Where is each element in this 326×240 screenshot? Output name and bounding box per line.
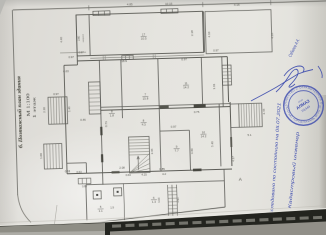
svg-text:5.1: 5.1: [248, 133, 252, 137]
svg-text:1.9: 1.9: [110, 205, 114, 209]
svg-text:3.60: 3.60: [190, 148, 194, 154]
svg-text:0.63: 0.63: [63, 69, 69, 73]
svg-text:2.30: 2.30: [42, 107, 46, 113]
svg-text:2.46: 2.46: [262, 108, 266, 114]
svg-text:10.15: 10.15: [165, 2, 173, 6]
svg-text:18.9: 18.9: [121, 59, 127, 63]
svg-text:0.97: 0.97: [213, 49, 219, 53]
svg-text:14.2: 14.2: [201, 134, 207, 138]
svg-text:4.40: 4.40: [59, 37, 63, 43]
svg-text:0.97: 0.97: [171, 124, 177, 128]
svg-text:4.16: 4.16: [234, 3, 240, 7]
svg-text:0.46: 0.46: [80, 118, 86, 122]
svg-text:1.06: 1.06: [157, 197, 161, 203]
svg-text:4.16: 4.16: [270, 33, 274, 39]
svg-text:А: А: [239, 177, 242, 182]
svg-text:0.97: 0.97: [53, 92, 59, 96]
svg-text:0.97: 0.97: [68, 55, 74, 59]
svg-text:Кадастровый инженер: Кадастровый инженер: [287, 131, 300, 209]
svg-text:1.91: 1.91: [176, 197, 180, 203]
svg-text:ОБЩЕСТВО С ОГРАНИЧЕННОЙ ОТВЕТС: ОБЩЕСТВО С ОГРАНИЧЕННОЙ ОТВЕТСТВЕН: [0, 0, 324, 106]
svg-text:4.25: 4.25: [141, 172, 147, 176]
svg-text:0.85: 0.85: [159, 167, 165, 171]
svg-text:0.97: 0.97: [78, 50, 84, 54]
svg-text:1.3: 1.3: [152, 200, 157, 204]
svg-text:3.01: 3.01: [212, 83, 216, 89]
svg-text:2.08: 2.08: [119, 165, 125, 169]
svg-text:Соболев А.А.: Соболев А.А.: [287, 38, 300, 58]
svg-text:1.8: 1.8: [110, 114, 115, 118]
svg-text:2.18: 2.18: [190, 30, 194, 36]
svg-text:1.1: 1.1: [99, 209, 104, 213]
svg-text:7.7: 7.7: [175, 149, 180, 153]
svg-text:1 этаж: 1 этаж: [32, 95, 38, 118]
svg-text:М 1:100: М 1:100: [25, 92, 31, 116]
svg-text:0.63: 0.63: [76, 170, 82, 174]
svg-text:4.17: 4.17: [231, 156, 235, 162]
svg-text:4.85: 4.85: [127, 2, 133, 6]
svg-text:2.66: 2.66: [150, 148, 154, 154]
svg-text:2.60: 2.60: [78, 35, 81, 41]
svg-text:15.8: 15.8: [143, 97, 149, 101]
svg-text:1.46: 1.46: [67, 106, 71, 112]
svg-text:б. Поэтажный план здания: б. Поэтажный план здания: [16, 76, 24, 149]
svg-text:Обследовано по состоянию на 05: Обследовано по состоянию на 05.07.2021: [269, 102, 282, 220]
svg-text:14.2: 14.2: [183, 85, 189, 89]
svg-text:0.73: 0.73: [104, 121, 108, 127]
svg-text:0.75: 0.75: [194, 110, 200, 114]
svg-text:4.3: 4.3: [142, 123, 147, 127]
svg-text:5.40: 5.40: [210, 141, 214, 147]
svg-text:0.63: 0.63: [126, 173, 132, 177]
svg-text:4.2: 4.2: [162, 172, 166, 176]
svg-text:0.97: 0.97: [181, 57, 187, 61]
svg-text:1.00: 1.00: [39, 153, 43, 159]
svg-text:санузел: санузел: [82, 34, 84, 43]
svg-text:0.63: 0.63: [82, 185, 88, 188]
svg-text:4.10: 4.10: [207, 31, 211, 37]
svg-text:10.5: 10.5: [141, 36, 147, 40]
svg-text:0.63: 0.63: [65, 169, 71, 173]
